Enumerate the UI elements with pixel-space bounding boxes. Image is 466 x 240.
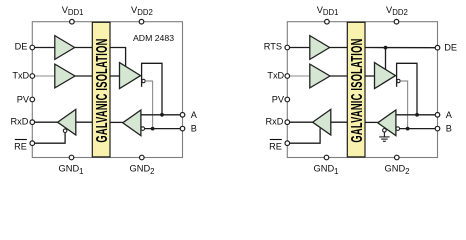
label RE (active low): [14, 140, 27, 152]
svg-text:DE: DE: [444, 42, 457, 52]
pin DE: [435, 45, 440, 50]
wire DE buffer to barrier: [75, 47, 93, 49]
pin A: [180, 113, 185, 118]
svg-text:GALVANIC ISOLATION: GALVANIC ISOLATION: [347, 38, 365, 142]
buffer RTS (logic input): [310, 36, 330, 60]
galvanic isolation barrier: [92, 22, 110, 157]
pin B: [435, 126, 440, 131]
pin GND2: [395, 155, 400, 160]
svg-text:B: B: [446, 124, 452, 134]
wire receiver output to barrier: [110, 121, 123, 123]
label RE (active low): [269, 140, 282, 152]
wire receiver + input / A line: [141, 114, 180, 116]
driver amplifier (differential): [120, 63, 141, 89]
svg-text:TxD: TxD: [12, 70, 29, 80]
ground receiver enable: [379, 132, 389, 141]
svg-text:A: A: [446, 110, 453, 120]
svg-text:PV: PV: [272, 94, 285, 104]
buffer RxD (receiver output): [313, 109, 331, 135]
bubble receiver enable: [383, 129, 387, 133]
wire driver enable branch: [385, 48, 387, 70]
svg-text:RxD: RxD: [11, 117, 29, 127]
pin RxD: [30, 120, 35, 125]
bubble receiver - input: [396, 127, 400, 131]
pin RE: [30, 141, 35, 146]
buffer DE (logic input): [55, 36, 75, 60]
pin VDD1: [325, 19, 330, 24]
pin DE: [30, 45, 35, 50]
wire RE to RxD buffer enable: [35, 133, 65, 144]
bubble receiver - input: [141, 127, 145, 131]
pin TxD: [30, 74, 35, 79]
pin TxD: [285, 74, 290, 79]
buffer RxD (receiver output): [58, 109, 76, 135]
receiver amplifier (differential): [378, 110, 396, 136]
bubble driver inverting output: [142, 79, 145, 82]
galvanic isolation barrier: [347, 22, 365, 157]
svg-text:DE: DE: [15, 42, 28, 52]
receiver amplifier (differential): [123, 110, 141, 136]
pin GND1: [324, 155, 329, 160]
wire barrier to DE output pin: [365, 47, 435, 49]
wire RxD buffer to RxD pin: [290, 121, 313, 123]
pin PV: [30, 97, 35, 102]
wire TxD buffer to barrier: [75, 75, 92, 77]
wire driver inverting branch to B: [400, 81, 407, 129]
junction driver enable: [384, 46, 388, 50]
svg-text:RTS: RTS: [264, 42, 282, 52]
wire barrier to driver input: [110, 75, 120, 77]
buffer TxD (driver input): [310, 64, 330, 88]
svg-text:RE: RE: [14, 142, 27, 152]
pin RE: [285, 141, 290, 146]
pin GND1: [69, 155, 74, 160]
pin VDD1: [70, 19, 75, 24]
wire RE to RxD buffer enable: [290, 128, 320, 143]
pin RTS: [285, 45, 290, 50]
pin PV: [285, 97, 290, 102]
wire receiver - input / B line: [400, 128, 435, 130]
wire barrier to RxD buffer: [331, 121, 348, 123]
wire driver output split bar: [396, 63, 398, 87]
pin A: [435, 113, 440, 118]
junction B line: [406, 127, 410, 131]
wire barrier to RxD buffer: [76, 121, 93, 123]
wire TxD input to buffer: [290, 75, 310, 77]
wire RxD buffer to RxD pin: [35, 121, 58, 123]
bubble driver inverting output: [397, 79, 400, 82]
wire RTS input to buffer: [290, 47, 310, 49]
wire barrier to driver input: [365, 75, 375, 77]
junction A line: [415, 113, 419, 117]
svg-text:GALVANIC ISOLATION: GALVANIC ISOLATION: [92, 38, 110, 142]
pin VDD2: [139, 19, 144, 24]
junction A line: [160, 113, 164, 117]
svg-text:RxD: RxD: [266, 117, 284, 127]
wire receiver output to barrier: [365, 121, 378, 123]
pin GND2: [140, 155, 145, 160]
bubble RxD buffer enable (active low): [63, 129, 67, 133]
pin RxD: [285, 120, 290, 125]
wire receiver + input / A line: [396, 114, 435, 116]
IC outline box U2: [287, 22, 437, 158]
junction B line: [151, 127, 155, 131]
pin VDD2: [394, 19, 399, 24]
svg-text:B: B: [191, 124, 197, 134]
wire receiver - input / B line: [145, 128, 180, 130]
wire RTS buffer to barrier: [330, 47, 348, 49]
pin B: [180, 126, 185, 131]
wire driver noninverting branch to A: [397, 63, 417, 115]
svg-text:TxD: TxD: [267, 70, 284, 80]
wire DE input to buffer: [35, 47, 55, 49]
IC outline box U1: [32, 22, 182, 158]
buffer TxD (driver input): [55, 64, 75, 88]
wire TxD buffer to barrier: [330, 75, 347, 77]
svg-text:A: A: [191, 110, 198, 120]
wire driver inverting branch to B: [145, 81, 152, 129]
wire driver output split bar: [141, 63, 143, 87]
svg-text:ADM 2483: ADM 2483: [133, 33, 174, 43]
wire barrier to driver enable: [110, 48, 126, 67]
svg-text:RE: RE: [269, 142, 282, 152]
wire TxD input to buffer: [35, 75, 55, 77]
svg-text:PV: PV: [17, 94, 30, 104]
driver amplifier (differential): [375, 63, 396, 89]
wire driver noninverting branch to A: [142, 63, 162, 115]
